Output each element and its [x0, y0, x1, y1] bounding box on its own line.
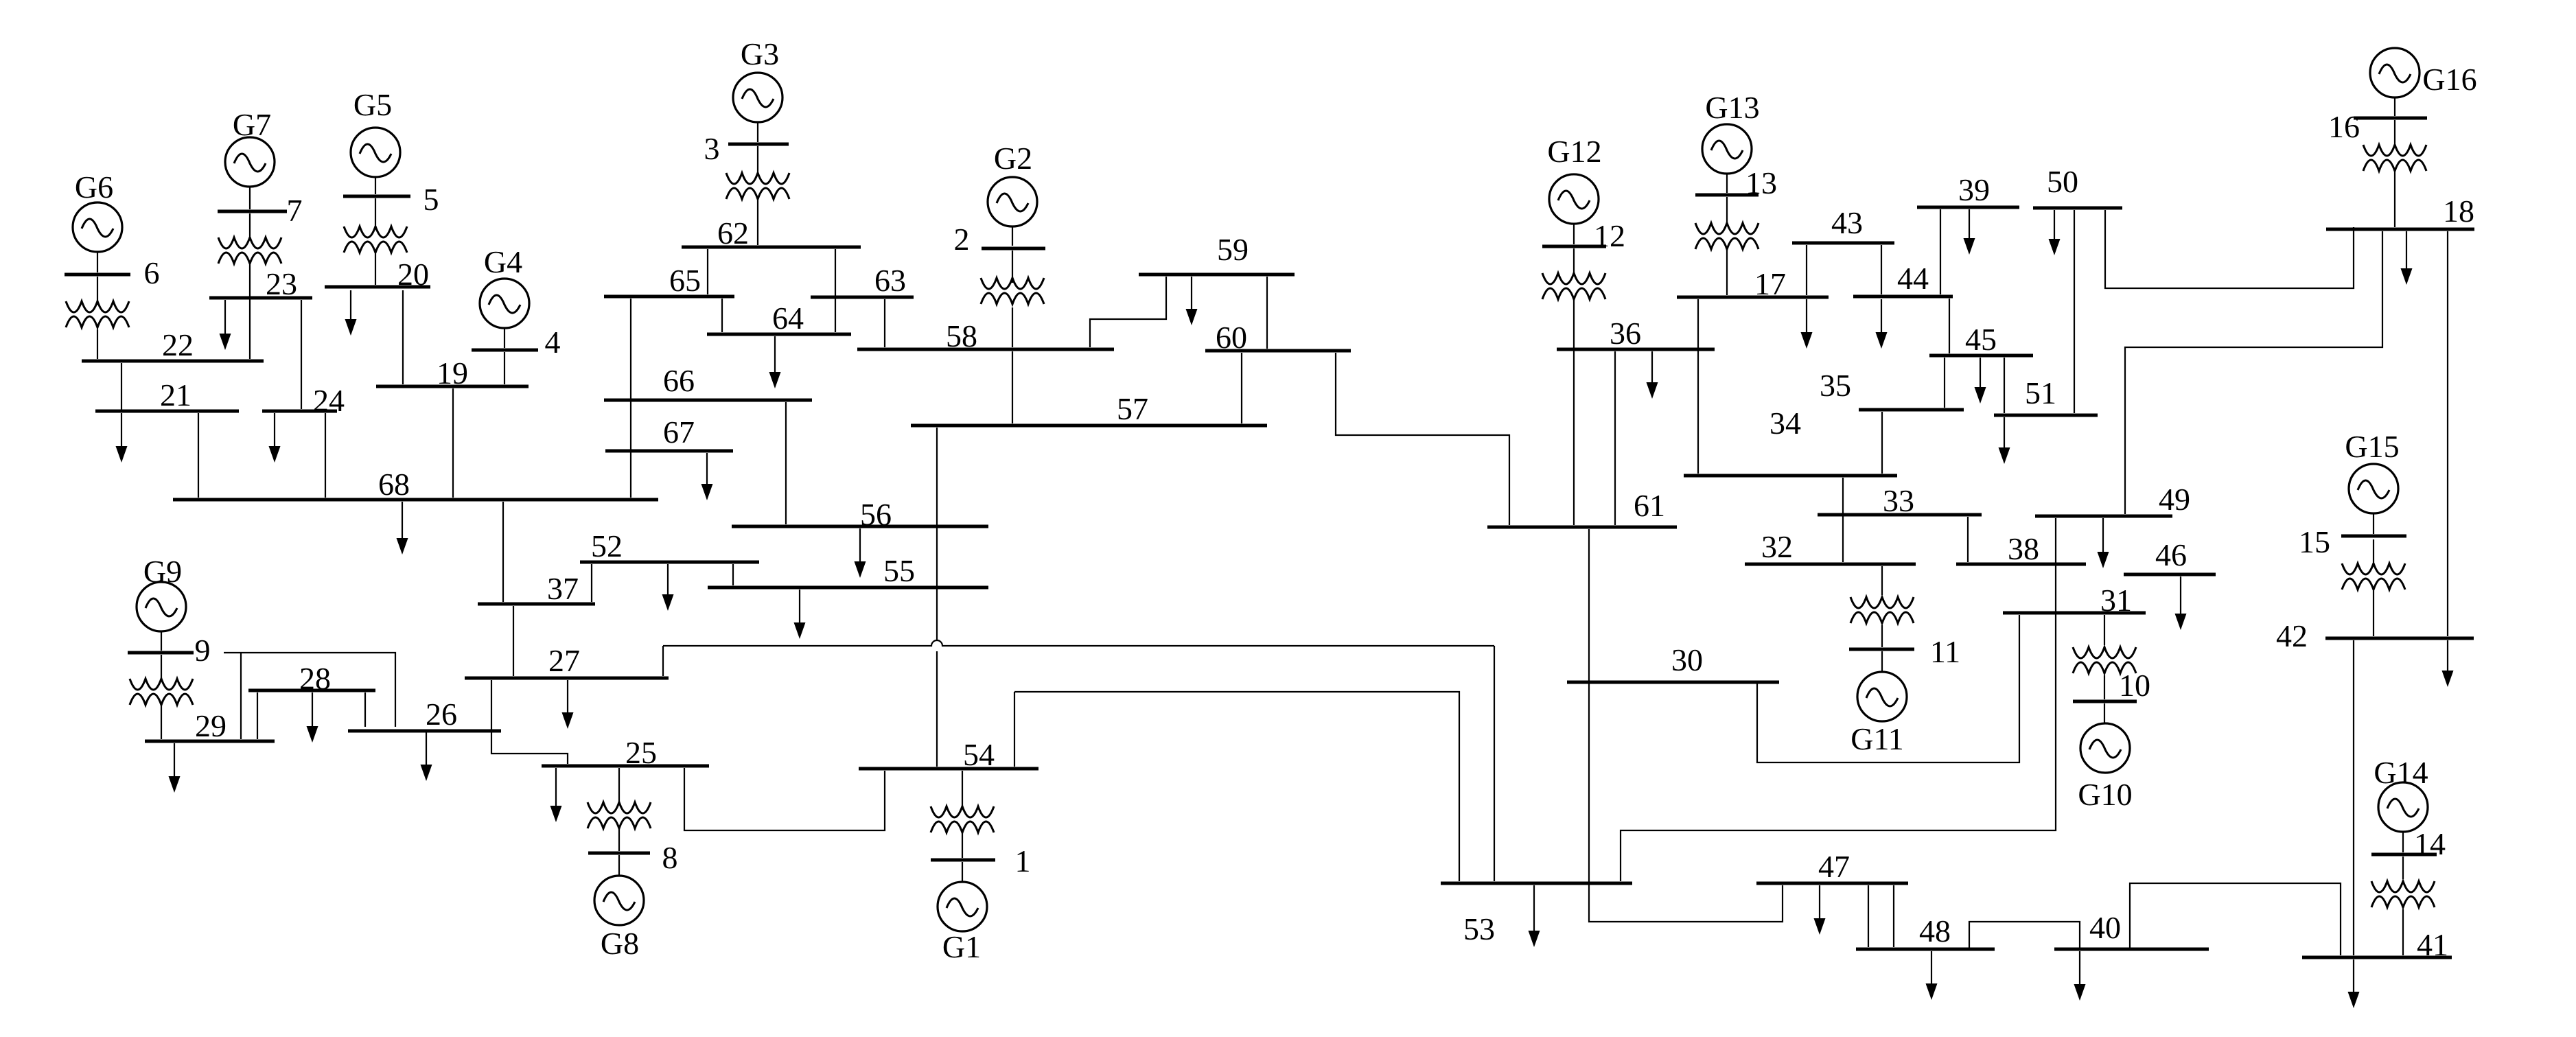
svg-text:G7: G7	[233, 107, 271, 142]
svg-text:38: 38	[2008, 531, 2039, 566]
svg-text:62: 62	[717, 215, 749, 250]
svg-text:G9: G9	[143, 554, 182, 589]
svg-text:36: 36	[1610, 316, 1641, 351]
svg-text:G6: G6	[75, 170, 113, 205]
svg-text:58: 58	[946, 318, 977, 353]
svg-text:G2: G2	[994, 141, 1032, 176]
svg-text:47: 47	[1818, 849, 1850, 884]
svg-text:6: 6	[144, 255, 160, 290]
svg-text:33: 33	[1883, 483, 1914, 518]
svg-text:G12: G12	[1547, 134, 1601, 169]
svg-text:44: 44	[1897, 261, 1929, 296]
svg-text:50: 50	[2047, 164, 2078, 199]
svg-text:37: 37	[547, 571, 579, 606]
svg-text:52: 52	[591, 528, 623, 563]
svg-text:53: 53	[1463, 911, 1495, 946]
svg-text:16: 16	[2328, 109, 2360, 144]
svg-text:12: 12	[1594, 218, 1625, 253]
svg-text:1: 1	[1015, 843, 1031, 878]
svg-text:13: 13	[1745, 165, 1777, 200]
svg-text:17: 17	[1754, 266, 1786, 301]
svg-text:60: 60	[1216, 320, 1247, 355]
svg-text:G4: G4	[484, 244, 522, 279]
svg-text:22: 22	[162, 327, 194, 362]
svg-text:45: 45	[1965, 322, 1997, 357]
svg-text:3: 3	[704, 131, 720, 166]
svg-text:7: 7	[287, 193, 303, 228]
svg-text:31: 31	[2100, 583, 2132, 618]
svg-text:55: 55	[883, 553, 915, 588]
svg-text:G15: G15	[2345, 429, 2399, 464]
svg-text:18: 18	[2443, 194, 2474, 229]
svg-text:G3: G3	[741, 36, 779, 71]
svg-text:61: 61	[1634, 488, 1665, 523]
svg-text:57: 57	[1117, 391, 1148, 426]
svg-text:G16: G16	[2422, 62, 2476, 97]
svg-text:G11: G11	[1850, 721, 1904, 756]
svg-text:23: 23	[266, 266, 297, 301]
svg-text:11: 11	[1930, 634, 1960, 669]
svg-text:49: 49	[2159, 482, 2190, 517]
svg-text:54: 54	[963, 737, 995, 772]
svg-text:G5: G5	[353, 87, 392, 122]
svg-text:19: 19	[437, 356, 468, 391]
svg-text:46: 46	[2155, 537, 2187, 572]
svg-text:34: 34	[1769, 406, 1801, 441]
svg-text:G13: G13	[1705, 90, 1759, 125]
svg-text:10: 10	[2119, 668, 2150, 703]
svg-text:G10: G10	[2078, 777, 2132, 812]
svg-text:43: 43	[1831, 205, 1863, 240]
svg-text:27: 27	[548, 643, 580, 678]
svg-text:64: 64	[772, 301, 804, 336]
svg-text:32: 32	[1761, 529, 1793, 564]
svg-text:56: 56	[860, 497, 892, 532]
svg-text:30: 30	[1671, 642, 1703, 677]
svg-text:59: 59	[1217, 232, 1249, 267]
svg-text:8: 8	[662, 840, 678, 875]
svg-text:4: 4	[545, 325, 561, 360]
svg-text:G8: G8	[601, 926, 639, 961]
svg-text:G14: G14	[2374, 755, 2428, 790]
svg-text:21: 21	[160, 377, 192, 412]
svg-text:25: 25	[625, 735, 657, 770]
svg-text:28: 28	[299, 661, 331, 696]
svg-text:68: 68	[378, 467, 410, 502]
svg-text:14: 14	[2414, 826, 2446, 861]
svg-text:24: 24	[313, 383, 345, 418]
svg-text:9: 9	[195, 633, 211, 668]
svg-text:35: 35	[1820, 368, 1851, 403]
svg-text:51: 51	[2025, 375, 2056, 410]
svg-text:G1: G1	[942, 929, 981, 964]
svg-text:29: 29	[195, 708, 227, 743]
svg-text:2: 2	[954, 222, 970, 257]
svg-text:63: 63	[874, 263, 906, 298]
svg-text:20: 20	[397, 257, 429, 292]
svg-text:5: 5	[423, 182, 439, 217]
svg-text:26: 26	[426, 697, 457, 732]
svg-text:66: 66	[663, 363, 695, 398]
svg-text:48: 48	[1919, 913, 1951, 948]
svg-text:65: 65	[669, 263, 701, 298]
svg-text:15: 15	[2299, 524, 2330, 559]
svg-text:41: 41	[2417, 927, 2448, 962]
svg-text:39: 39	[1958, 172, 1990, 207]
svg-text:42: 42	[2276, 618, 2308, 653]
svg-text:40: 40	[2089, 910, 2121, 945]
svg-text:67: 67	[663, 415, 695, 450]
